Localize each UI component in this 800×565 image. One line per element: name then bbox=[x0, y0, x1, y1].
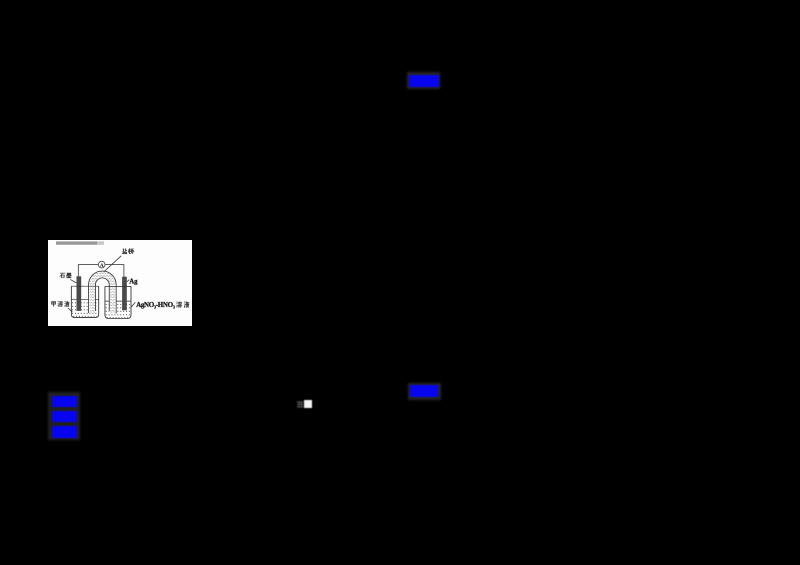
salt bridge stipple dots bbox=[90, 271, 116, 312]
ammeter A bbox=[98, 261, 105, 268]
wire left electrode to ammeter bbox=[78, 264, 98, 276]
salt bridge inner outline bbox=[95, 277, 109, 310]
beaker right rim bbox=[105, 285, 131, 287]
label 甲溶液 (solution 甲) bbox=[51, 301, 55, 306]
svg-text:AgNO3-HNO3: AgNO3-HNO3 bbox=[136, 301, 175, 309]
svg-text:Ag: Ag bbox=[129, 278, 138, 285]
inline formula chip (white) bbox=[304, 400, 312, 408]
label 石墨 (graphite) bbox=[59, 272, 65, 277]
faint gray glyph before chip bbox=[296, 400, 305, 409]
diagram panel: electrochemical cell figure bbox=[48, 240, 192, 327]
hyperlink block 1 (blue) bbox=[409, 75, 439, 87]
hyperlink stack row 1 (blue) bbox=[52, 396, 77, 408]
hyperlink block 2 halo bbox=[408, 383, 442, 401]
hyperlink stack row 2 (blue) bbox=[52, 411, 77, 422]
pointer line 甲溶液 to beaker bbox=[68, 308, 72, 312]
beaker right bbox=[105, 286, 131, 318]
salt bridge tube fill bbox=[89, 271, 117, 313]
pointer line 盐桥 to tube bbox=[104, 255, 121, 271]
beaker left rim bbox=[71, 285, 98, 287]
electrode graphite (石墨) left bbox=[77, 276, 82, 311]
label 盐桥 (salt bridge) bbox=[122, 248, 127, 253]
gray toolbar bar artifact bbox=[56, 241, 97, 244]
liquid surface left (甲溶液) bbox=[71, 298, 98, 300]
electrode Ag right bbox=[122, 276, 127, 310]
liquid surface right (AgNO3 solution) bbox=[105, 300, 131, 302]
wire ammeter to right electrode bbox=[105, 264, 124, 276]
svg-text:A: A bbox=[100, 262, 104, 268]
hyperlink stack halo bbox=[48, 392, 80, 440]
salt bridge outer outline bbox=[89, 271, 117, 313]
liquid dotted fill left beaker bbox=[72, 302, 98, 316]
hyperlink block 2 (blue) bbox=[410, 385, 438, 397]
beaker left bbox=[71, 286, 98, 317]
pointer line Ag to electrode bbox=[127, 279, 130, 281]
pointer line AgNO3 label to beaker bbox=[131, 302, 135, 307]
hyperlink block 1 halo bbox=[407, 72, 440, 89]
hyperlink stack row 3 (blue) bbox=[52, 426, 77, 438]
pointer line 石墨 to electrode bbox=[70, 279, 76, 283]
liquid dotted fill right beaker bbox=[106, 304, 131, 317]
figure white background bbox=[48, 240, 192, 327]
